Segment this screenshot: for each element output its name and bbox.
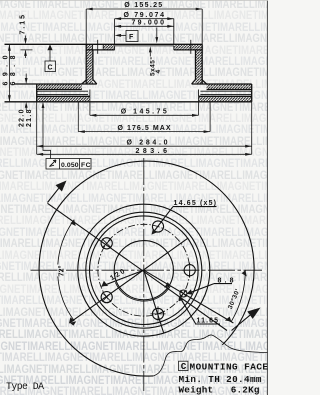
- pin hole with cross: [180, 290, 187, 297]
- svg-text:Ø 284.0: Ø 284.0: [127, 140, 168, 147]
- svg-text:68.8: 68.8: [10, 55, 17, 85]
- hat right wall outline: [196, 44, 203, 84]
- hat top plate mid-left segment (hatched): [103, 44, 114, 50]
- flatness callout box 0.050 FC: [46, 159, 91, 170]
- svg-text:F: F: [129, 34, 134, 41]
- svg-text:Type DA: Type DA: [6, 381, 44, 392]
- svg-text:C: C: [181, 361, 187, 372]
- ray for 120° dimension with arrow: [102, 270, 144, 286]
- chamfer leader lower arrow and 5x45°/4 note: [149, 46, 163, 76]
- hat left wall (hatched): [86, 50, 93, 84]
- dimension 69.0/68.8 vertical far left: [3, 44, 18, 102]
- svg-text:C: C: [48, 64, 53, 71]
- break wavy line: [153, 335, 269, 376]
- dimension 79.000: [115, 20, 174, 28]
- horizontal centerline: [31, 269, 263, 271]
- ring inner edge right below vent: [198, 90, 200, 97]
- 72° arc: [58, 220, 74, 321]
- mounting face line (datum C plane): [5, 43, 203, 45]
- bolt circle Ø120.65 dash-dot: [98, 224, 190, 316]
- svg-text:MOUNTING FACE: MOUNTING FACE: [190, 361, 269, 372]
- ray through pin hole (30°30'): [144, 270, 234, 323]
- datum F flag pointing at bore: [115, 31, 138, 42]
- hat top plate bottom edge right: [174, 49, 202, 51]
- scan border right edge: [267, 0, 268, 395]
- left wall foot fillet: [82, 80, 97, 85]
- label C MOUNTING FACE: [179, 361, 269, 372]
- bolt hole right: [182, 263, 197, 278]
- flatness callout leader: [42, 102, 51, 159]
- ray to lower-right bolt hole: [144, 270, 164, 332]
- ring inner edge left below vent: [89, 90, 91, 97]
- ring bottom plate inner lines: [37, 95, 252, 97]
- hat top plate right segment (hatched): [174, 44, 202, 50]
- center bore circle Ø79: [114, 241, 173, 300]
- text 120 rotated: [109, 268, 126, 282]
- 30°30' arc: [231, 270, 245, 321]
- label 14.65 (x5) with leader: [152, 200, 217, 235]
- dimension Ø79.074: [115, 12, 174, 20]
- 120° arc: [115, 282, 170, 301]
- ring bottom edge line: [5, 101, 252, 103]
- 30°30' arc end arrows: [225, 270, 247, 321]
- label Min. TH 20.4mm: [179, 374, 262, 385]
- svg-text:Min. TH 20.4mm: Min. TH 20.4mm: [179, 374, 262, 385]
- diagonal ray through lower-left bolt hole extended: [70, 238, 189, 323]
- ring left outer edge: [36, 84, 38, 102]
- dimension 22.0/21.8 vertical: [19, 74, 34, 128]
- svg-text:72°: 72°: [58, 265, 66, 276]
- bore right edge extension: [173, 19, 175, 45]
- vent slot right: [200, 91, 251, 94]
- dimension Ø155.25: [86, 2, 202, 10]
- label Type DA: [6, 381, 44, 392]
- circle Ø176.5: [78, 204, 210, 336]
- hat outer left edge extension: [85, 9, 87, 44]
- svg-text:30°30': 30°30': [226, 287, 242, 310]
- hat left wall outline: [86, 44, 93, 84]
- hat right wall (hatched): [196, 50, 203, 84]
- label 8.8 with leader: [187, 278, 234, 295]
- bolt hole bottom-right: [150, 306, 165, 321]
- ring top plate inner lines: [37, 89, 252, 91]
- hat top plate bottom edge left: [86, 49, 114, 51]
- circle Ø145.75: [90, 216, 199, 325]
- arrow at end of lower-left ray (72° arc end): [70, 321, 77, 325]
- vent slot left: [37, 91, 88, 94]
- svg-text:283.6: 283.6: [136, 148, 168, 155]
- friction ring bottom plate right (hatched): [199, 96, 252, 102]
- chamfer leader upper arrow: [155, 28, 158, 44]
- svg-text:Ø 79.074: Ø 79.074: [124, 12, 165, 19]
- bore left edge extension: [114, 19, 116, 45]
- right bolt hole centerline: [190, 40, 192, 54]
- friction ring top plate right (hatched): [207, 84, 252, 90]
- section arrow lower right: [232, 308, 261, 331]
- svg-text:FC: FC: [81, 162, 91, 169]
- svg-text:22.0: 22.0: [19, 109, 26, 127]
- svg-text:7.15: 7.15: [20, 15, 27, 35]
- hat top plate left segment (hatched): [86, 44, 92, 50]
- datum C flag on mounting face: [45, 44, 56, 71]
- bolt hole top-left with cross: [101, 238, 112, 249]
- svg-text:14.65 (x5): 14.65 (x5): [174, 200, 217, 207]
- dimension 283.6: [37, 148, 252, 156]
- friction ring top plate left (hatched): [37, 84, 82, 90]
- ring top edge line: [14, 83, 252, 85]
- ring right outer edge: [251, 84, 253, 102]
- label Weight 6.2Kg: [179, 385, 260, 395]
- outer circle Ø284 (gap at lower right replaced by break line): [39, 161, 254, 376]
- 72° arc end arrows: [69, 220, 76, 324]
- svg-text:0.050: 0.050: [61, 162, 79, 169]
- right wall foot fillet: [192, 80, 207, 85]
- dimension 7.15 vertical left: [20, 15, 33, 58]
- circle Ø155.25: [86, 212, 202, 328]
- friction ring bottom plate left (hatched): [37, 96, 90, 102]
- vertical centerline: [143, 158, 145, 391]
- bolt hole top-right: [152, 221, 163, 232]
- svg-text:Ø 176.5 MAX: Ø 176.5 MAX: [118, 125, 171, 132]
- bore chamfer edge line: [115, 46, 174, 50]
- svg-text:21.8: 21.8: [26, 109, 33, 127]
- dimension Ø176.5 MAX: [78, 102, 210, 133]
- svg-text:Ø 145.75: Ø 145.75: [121, 109, 167, 116]
- svg-text:79.000: 79.000: [132, 20, 165, 27]
- svg-text:69.0: 69.0: [3, 55, 10, 85]
- section arrow upper left: [48, 181, 67, 203]
- text 30°30' rotated: [226, 287, 242, 310]
- section cutting line through center: [48, 203, 228, 330]
- svg-text:4: 4: [155, 70, 162, 74]
- dimension Ø145.75: [90, 97, 199, 117]
- hat outer right edge extension: [201, 9, 203, 44]
- dimension Ø284.0: [37, 102, 252, 155]
- scan border top edge: [0, 0, 268, 2]
- left bolt hole edges in section: [93, 44, 104, 50]
- left bolt hole centerline: [97, 40, 99, 54]
- bolt hole bottom-left with cross: [101, 292, 112, 303]
- text 72°: [58, 265, 66, 276]
- svg-text:Ø 155.25: Ø 155.25: [124, 2, 162, 9]
- label 11.65 with leader: [179, 296, 221, 325]
- svg-text:Weight 6.2Kg: Weight 6.2Kg: [179, 385, 260, 395]
- 120° arc end arrow: [164, 282, 170, 288]
